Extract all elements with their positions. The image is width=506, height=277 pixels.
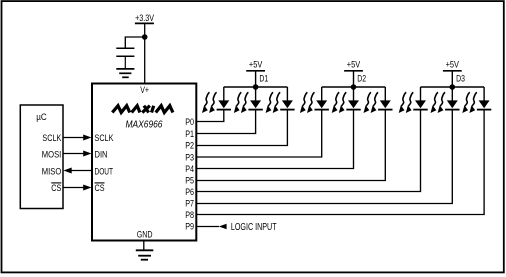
- IC U1 MAX6966 body: [92, 84, 196, 241]
- arrow into P9: [219, 224, 227, 230]
- svg-text:P9: P9: [185, 222, 194, 232]
- wire MOSI to DIN: [63, 153, 84, 155]
- svg-text:P7: P7: [185, 199, 194, 209]
- capacitor C1 (bypass): [116, 48, 134, 68]
- wire P3 to LED D2a: [197, 109, 322, 157]
- svg-text:P1: P1: [185, 129, 194, 139]
- svg-text:MOSI: MOSI: [42, 149, 62, 160]
- microcontroller block uC: [20, 105, 63, 209]
- svg-text:MISO: MISO: [42, 167, 62, 178]
- MAXIM logo: [112, 106, 173, 113]
- LED D2a: [300, 87, 329, 113]
- svg-text:GND: GND: [137, 229, 153, 240]
- node junction dot on V+ wire: [142, 34, 148, 40]
- svg-text:P3: P3: [185, 152, 194, 162]
- svg-text:DOUT: DOUT: [95, 167, 114, 178]
- svg-text:DIN: DIN: [95, 149, 108, 160]
- wire +5V rail D2: [322, 86, 386, 88]
- svg-text:CS: CS: [51, 183, 61, 194]
- +5V supply D1 group: [246, 58, 265, 89]
- wire P9 logic input: [197, 226, 220, 228]
- LED D1b: [234, 87, 263, 113]
- wire P5 to LED D2c: [197, 109, 386, 180]
- svg-text:CS: CS: [95, 183, 105, 194]
- +3.3V supply bar: [135, 22, 154, 24]
- wire P4 to LED D2b: [197, 109, 354, 168]
- svg-text:+3.3V: +3.3V: [135, 13, 154, 24]
- LED D1a: [202, 87, 231, 113]
- LED D3c: [462, 87, 491, 113]
- wire P2 to LED D1c: [197, 109, 288, 145]
- svg-text:D2: D2: [357, 74, 366, 84]
- +5V supply D3 group: [443, 58, 462, 89]
- wire junction to capacitor C1: [125, 37, 144, 48]
- svg-text:P8: P8: [185, 210, 194, 220]
- wire SCLK: [63, 137, 84, 139]
- svg-text:LOGIC INPUT: LOGIC INPUT: [231, 222, 277, 233]
- LED D1c: [266, 87, 295, 113]
- +5V supply D2 group: [344, 58, 363, 89]
- wire DOUT to MISO: [71, 170, 93, 172]
- wire P6 to LED D3a: [197, 109, 421, 191]
- ground (chip GND): [136, 250, 154, 259]
- LED D3b: [431, 87, 460, 113]
- wire CS: [63, 187, 84, 189]
- svg-text:P6: P6: [185, 187, 194, 197]
- wire +5V rail D3: [421, 86, 485, 88]
- svg-text:P0: P0: [185, 117, 194, 127]
- LED D2c: [364, 87, 393, 113]
- svg-text:D1: D1: [259, 74, 268, 84]
- svg-text:P5: P5: [185, 175, 194, 185]
- wire +5V rail D1: [224, 86, 288, 88]
- svg-text:P4: P4: [185, 164, 194, 174]
- ground (capacitor): [116, 69, 134, 77]
- wire P0 to LED D1a: [197, 109, 224, 121]
- LED D3a: [399, 87, 428, 113]
- svg-text:V+: V+: [140, 85, 149, 95]
- LED D2b: [332, 87, 361, 113]
- svg-text:µC: µC: [36, 112, 47, 123]
- GND pin wire: [143, 241, 145, 251]
- svg-text:D3: D3: [456, 74, 465, 84]
- wire P1 to LED D1b: [197, 109, 256, 133]
- svg-text:MAX6966: MAX6966: [126, 120, 163, 131]
- wire P7 to LED D3b: [197, 109, 453, 203]
- svg-text:SCLK: SCLK: [42, 133, 61, 144]
- wire P8 to LED D3c: [197, 109, 485, 214]
- wire +3.3V to V+ pin: [144, 23, 146, 83]
- svg-text:P2: P2: [185, 141, 194, 151]
- svg-text:SCLK: SCLK: [95, 133, 114, 144]
